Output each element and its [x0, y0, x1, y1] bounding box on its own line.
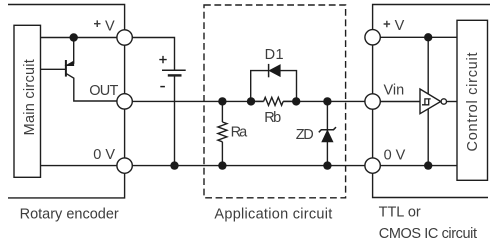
wire 0V right to control box [380, 165, 457, 167]
junction dot battery to 0V [170, 161, 178, 169]
terminal circle OUT [117, 94, 132, 109]
svg-text:Rotary encoder: Rotary encoder [20, 207, 119, 223]
svg-text:Application circuit: Application circuit [214, 206, 332, 222]
inverter bubble [441, 99, 446, 104]
junction dot Ra bottom [218, 161, 226, 169]
terminal circle Vin [365, 94, 380, 109]
svg-text:D1: D1 [265, 47, 284, 63]
wire top-right frame [373, 5, 490, 30]
svg-text:ZD: ZD [296, 127, 314, 143]
zener diode ZD [319, 101, 336, 165]
svg-text:Control circuit: Control circuit [465, 53, 481, 152]
wire main signal line OUT to Vin [132, 100, 365, 102]
svg-text:Main circuit: Main circuit [22, 59, 38, 135]
svg-text:0 V: 0 V [384, 148, 406, 164]
svg-text:Rb: Rb [264, 110, 281, 126]
junction dot ZD top [323, 97, 331, 105]
wire bottom-left frame [8, 173, 125, 198]
svg-text:Vin: Vin [384, 83, 405, 99]
wire right rail between terminals [372, 45, 374, 158]
terminal circle +V left [117, 30, 132, 45]
main circuit box [14, 25, 41, 177]
junction dot Ra top [218, 97, 226, 105]
terminal circle 0V right [365, 158, 380, 173]
wire bottom-right frame [373, 173, 488, 197]
wire left rail between terminals [124, 45, 126, 158]
svg-text:TTL or: TTL or [379, 205, 421, 221]
wire gate supply vertical [427, 37, 429, 165]
svg-text:OUT: OUT [89, 83, 118, 99]
wire 0V left [41, 165, 118, 167]
diode D1 branch [251, 64, 297, 102]
wire Vin to gate input [380, 101, 420, 103]
svg-text:V: V [395, 18, 405, 34]
svg-text:Ra: Ra [231, 125, 249, 141]
transistor Q1 [66, 38, 117, 102]
junction dot ZD bottom [323, 161, 331, 169]
wire top-left frame [8, 5, 125, 31]
dashed application circuit box [204, 5, 346, 198]
wire +V from box to terminal [41, 37, 118, 39]
wire +V right to control box [380, 36, 457, 38]
battery B1 wires [132, 38, 174, 166]
control circuit box [457, 20, 488, 180]
battery short plate [168, 74, 182, 76]
wire gate output [447, 101, 458, 103]
junction dot 0V right [424, 161, 432, 169]
battery long plate [162, 69, 186, 71]
junction dot +V right [424, 33, 432, 41]
wire 0V line across application circuit [132, 165, 365, 167]
resistor Ra [218, 101, 227, 165]
battery minus sign [160, 86, 165, 88]
battery plus sign [159, 56, 166, 63]
terminal circle 0V left [117, 158, 132, 173]
junction dot Rb right [292, 97, 300, 105]
junction dot Rb left [247, 97, 255, 105]
label +V left [94, 20, 101, 27]
svg-text:V: V [105, 19, 115, 35]
label +V right [384, 21, 391, 28]
svg-text:0 V: 0 V [93, 147, 115, 163]
schmitt inverter U1 triangle [420, 89, 441, 114]
wire base [41, 68, 66, 70]
junction dot at transistor emitter / +V [70, 33, 78, 41]
schmitt hysteresis symbol [422, 99, 431, 105]
svg-text:CMOS IC circuit: CMOS IC circuit [379, 226, 477, 242]
terminal circle +V right [365, 30, 380, 45]
resistor Rb [251, 97, 297, 105]
